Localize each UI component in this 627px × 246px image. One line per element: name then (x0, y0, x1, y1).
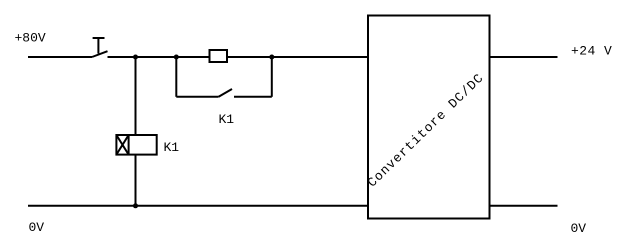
svg-text:0V: 0V (29, 220, 45, 235)
wire contact branch bottom left (176, 96, 218, 98)
relay coil K1 X diagonal 1 (116, 135, 128, 155)
relay coil K1 divider (128, 135, 130, 155)
wire 0V output (490, 205, 558, 207)
wire bottom 0V rail (28, 205, 368, 207)
pushbutton S1 blade (92, 51, 108, 57)
svg-text:0V: 0V (571, 221, 587, 236)
pushbutton S1 actuator stem (97, 38, 99, 54)
node junction dot A (coil branch) (133, 55, 138, 60)
wire pushbutton to resistor box (108, 56, 210, 58)
svg-text:+80V: +80V (15, 31, 46, 46)
relay coil K1 X diagonal 2 (116, 135, 128, 155)
wire +24V output (490, 56, 558, 58)
wire contact branch left vertical (175, 57, 177, 97)
wire resistor box to converter (227, 56, 368, 58)
wire contact branch bottom right (234, 96, 272, 98)
node junction dot C (contact branch right) (269, 55, 274, 60)
resistor R1 box on top wire (210, 50, 228, 62)
relay coil K1 body (116, 135, 156, 155)
converter U1 box (368, 16, 490, 219)
node junction dot B (contact branch left) (174, 55, 179, 60)
contact K1 blade (219, 89, 232, 97)
node junction dot D (coil to 0V) (133, 203, 138, 208)
svg-text:K1: K1 (219, 112, 235, 127)
pushbutton S1 actuator cap (93, 37, 105, 39)
wire coil branch lower vertical (135, 155, 137, 206)
wire contact branch right vertical (271, 57, 273, 97)
wire top-left from +80V to pushbutton (28, 56, 92, 58)
svg-text:K1: K1 (164, 140, 180, 155)
svg-text:+24 V: +24 V (571, 44, 612, 59)
wire coil branch upper vertical (135, 57, 137, 135)
